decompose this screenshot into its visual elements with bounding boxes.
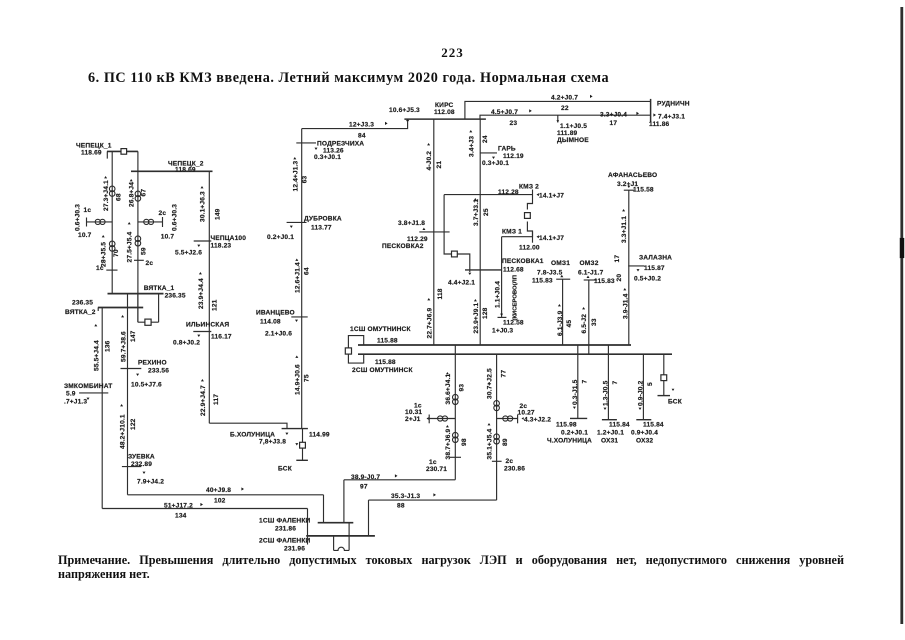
- tick 1c on v1: [96, 265, 118, 272]
- svg-text:10.31: 10.31: [405, 409, 422, 416]
- svg-text:ИЛЬИНСКАЯ: ИЛЬИНСКАЯ: [186, 322, 229, 329]
- svg-text:2c: 2c: [159, 210, 167, 217]
- svg-text:5.5+J2.6: 5.5+J2.6: [175, 250, 202, 257]
- svg-text:134: 134: [175, 513, 187, 520]
- svg-text:67: 67: [141, 189, 148, 197]
- labels line 136: [94, 324, 112, 371]
- svg-text:1+J0.3: 1+J0.3: [492, 328, 513, 335]
- svg-text:26.8+J4: 26.8+J4: [128, 182, 135, 207]
- labels РЕХИНО: [131, 360, 169, 389]
- labels line 17 (Дымное-Рудничн): [600, 112, 639, 128]
- labels line 20: [616, 274, 629, 319]
- svg-text:114.99: 114.99: [309, 432, 330, 439]
- svg-text:30.1+J6.3: 30.1+J6.3: [200, 191, 207, 222]
- wire v7 ЧЕПЕЦК_2 down to Б.ХОЛУНИЦА corner: [208, 171, 210, 423]
- node ЗАЛАЗНА tick: [628, 266, 644, 272]
- svg-text:2c: 2c: [146, 260, 154, 267]
- svg-text:ЗАЛАЗНА: ЗАЛАЗНА: [639, 255, 672, 262]
- svg-text:(КИСЕРОВО(ЛП: (КИСЕРОВО(ЛП: [512, 275, 518, 320]
- svg-text:115.88: 115.88: [375, 359, 396, 366]
- labels ПЕСКОВКА2: [382, 220, 428, 250]
- node ЗУЕВКА tick: [122, 467, 146, 474]
- svg-text:0.2+J0.1: 0.2+J0.1: [267, 234, 294, 241]
- tick 2c 230.86: [492, 458, 525, 473]
- node КИРС bus: [404, 102, 486, 119]
- labels line 63: [292, 157, 308, 192]
- svg-text:40+J9.8: 40+J9.8: [206, 487, 231, 494]
- svg-text:0.3+J0.1: 0.3+J0.1: [314, 154, 341, 161]
- node ЗМКОМБИНАТ tick: [79, 393, 108, 400]
- node АФАНАСЬЕВО tick: [624, 186, 634, 191]
- transformer circles 98: [453, 432, 459, 442]
- node ИЛЬИНСКАЯ tick: [193, 332, 211, 338]
- svg-text:ОХ31: ОХ31: [601, 438, 618, 445]
- svg-text:22: 22: [561, 105, 569, 112]
- branch Ч.ХОЛУНИЦА: [570, 345, 587, 418]
- node ПОДРЕЗЧИХА tick: [296, 143, 317, 150]
- svg-text:88: 88: [397, 503, 405, 510]
- labels КМЗ_2: [498, 184, 564, 200]
- svg-text:55.5+J4.4: 55.5+J4.4: [94, 340, 101, 371]
- node 1СШ ФАЛЕНКИ bus: [259, 518, 353, 533]
- svg-text:7.8-J3.5: 7.8-J3.5: [537, 270, 563, 277]
- svg-text:6.1-J3.9: 6.1-J3.9: [557, 310, 564, 336]
- svg-text:14.1+J7: 14.1+J7: [539, 235, 564, 242]
- label БСК: [278, 466, 293, 473]
- svg-text:1c: 1c: [96, 265, 104, 272]
- svg-text:1.1+J0.5: 1.1+J0.5: [560, 123, 587, 130]
- svg-text:10.5+J7.6: 10.5+J7.6: [131, 382, 162, 389]
- svg-text:147: 147: [130, 330, 137, 342]
- svg-text:114.08: 114.08: [260, 319, 281, 326]
- svg-text:70: 70: [113, 249, 120, 257]
- branch 2c 10kV: [497, 415, 518, 424]
- svg-text:БСК: БСК: [278, 466, 293, 473]
- svg-text:7: 7: [612, 381, 619, 385]
- svg-text:24: 24: [482, 135, 489, 143]
- labels line 88: [391, 493, 436, 510]
- label 4.4+J2.1: [448, 280, 475, 287]
- svg-text:КМЗ 2: КМЗ 2: [519, 184, 539, 191]
- svg-text:122: 122: [130, 418, 137, 430]
- svg-text:115.83: 115.83: [594, 278, 615, 285]
- labels line 118: [426, 288, 443, 338]
- svg-text:93: 93: [458, 384, 465, 392]
- label line 51+J17.2 134: [164, 503, 203, 520]
- node ДЫМНОЕ stub: [556, 115, 559, 122]
- labels line 17 Afan: [614, 209, 628, 263]
- svg-text:12.4+J1.3: 12.4+J1.3: [292, 160, 299, 191]
- wire line 22 Кирс-Рудничн: [465, 101, 651, 119]
- svg-text:22.7+J6.9: 22.7+J6.9: [426, 307, 433, 338]
- node ДУБРОВКА tick: [287, 222, 307, 228]
- svg-text:ЧЕПЦА100: ЧЕПЦА100: [211, 235, 247, 242]
- labels ИВАНЦЕВО: [256, 310, 295, 338]
- labels line 93: [445, 372, 465, 405]
- svg-text:112.00: 112.00: [519, 245, 540, 252]
- svg-text:ОМЗ2: ОМЗ2: [580, 260, 599, 267]
- svg-text:ВЯТКА_2: ВЯТКА_2: [65, 309, 96, 316]
- svg-text:236.35: 236.35: [165, 293, 186, 300]
- labels КИСЕРОВО: [492, 275, 524, 334]
- svg-text:118.69: 118.69: [175, 167, 196, 174]
- svg-text:30.7+J2.5: 30.7+J2.5: [487, 368, 494, 399]
- node ПЕСКОВКА2 tick: [419, 228, 449, 232]
- svg-text:48.2+J10.1: 48.2+J10.1: [119, 414, 126, 449]
- svg-text:36.6+J4.1: 36.6+J4.1: [445, 373, 452, 404]
- svg-text:ДЫМНОЕ: ДЫМНОЕ: [557, 137, 589, 144]
- labels ОМЗ2: [578, 260, 615, 285]
- svg-text:17: 17: [614, 255, 621, 263]
- labels line 75: [294, 356, 310, 396]
- wire КМЗ_2 line: [444, 190, 532, 201]
- svg-text:3.9-J1.4: 3.9-J1.4: [623, 293, 630, 319]
- svg-text:45: 45: [566, 320, 573, 328]
- svg-text:Б.ХОЛУНИЦА: Б.ХОЛУНИЦА: [230, 432, 275, 439]
- wire КМЗ_1 line: [502, 232, 533, 243]
- svg-text:ПЕСКОВКА1: ПЕСКОВКА1: [502, 258, 544, 265]
- labels line 45: [557, 304, 573, 336]
- branch 1c 10kV: [429, 415, 455, 424]
- labels line 24: [468, 130, 489, 157]
- breaker square ОМУТНИНСК tie: [345, 348, 351, 354]
- svg-text:231.96: 231.96: [284, 546, 305, 553]
- svg-text:17: 17: [610, 120, 618, 127]
- labels КМЗ_1: [502, 229, 564, 252]
- wire v8 from line-84 corner down to Б.ХОЛУНИЦА: [301, 129, 303, 429]
- svg-text:232.89: 232.89: [131, 461, 152, 468]
- labels ОХ31 line 7: [603, 380, 620, 410]
- labels ИЛЬИНСКАЯ: [173, 322, 232, 347]
- svg-text:Ч.ХОЛУНИЦА: Ч.ХОЛУНИЦА: [547, 438, 592, 445]
- svg-text:КМЗ 1: КМЗ 1: [502, 229, 522, 236]
- node ЧЕПЕЦК_1 bus: [76, 143, 138, 157]
- svg-text:27.5+J5.4: 27.5+J5.4: [126, 231, 133, 262]
- wire v-21 Кирс down to Омутнинск 1СШ: [433, 119, 435, 345]
- node ВЯТКА_2 bus: [65, 300, 143, 317]
- labels ЗАЛАЗНА: [634, 255, 672, 283]
- wire КМЗ tie with breaker: [527, 201, 532, 237]
- node ЧЕПЕЦК_2 bus: [131, 160, 213, 173]
- svg-text:ГАРЬ: ГАРЬ: [498, 146, 516, 153]
- svg-text:ЗУЕВКА: ЗУЕВКА: [128, 454, 155, 461]
- labels ГАРЬ: [482, 146, 524, 168]
- node ОМЗ2 tick: [584, 276, 597, 355]
- svg-text:116.17: 116.17: [211, 334, 232, 341]
- labels РУДНИЧН: [649, 101, 690, 129]
- wire Афанасьево-Залазна-Омутнинск: [628, 190, 630, 345]
- svg-text:51+J17.2: 51+J17.2: [164, 503, 193, 510]
- svg-text:1.1+J0.4: 1.1+J0.4: [495, 281, 502, 308]
- breaker square КМЗ tie: [525, 213, 531, 219]
- node Б.ХОЛУНИЦА bus tick: [282, 429, 308, 435]
- svg-text:ПЕСКОВКА2: ПЕСКОВКА2: [382, 243, 424, 250]
- labels ДЫМНОЕ: [557, 123, 589, 144]
- transformer column 2c (right): [496, 354, 498, 500]
- svg-text:АФАНАСЬЕВО: АФАНАСЬЕВО: [608, 172, 657, 179]
- svg-text:12.6+J1.4: 12.6+J1.4: [294, 262, 301, 293]
- label line 67: [128, 179, 147, 207]
- svg-text:ОХ32: ОХ32: [636, 438, 653, 445]
- svg-text:112.29: 112.29: [407, 236, 428, 243]
- svg-text:98: 98: [461, 438, 468, 446]
- svg-text:236.35: 236.35: [72, 300, 93, 307]
- svg-text:59.7+J8.6: 59.7+J8.6: [120, 331, 127, 362]
- svg-text:35.3-J1.3: 35.3-J1.3: [391, 493, 420, 500]
- svg-text:63: 63: [302, 175, 309, 183]
- svg-text:2+J1: 2+J1: [405, 416, 421, 423]
- svg-text:10.7: 10.7: [161, 234, 175, 241]
- svg-text:7,8+J3.8: 7,8+J3.8: [259, 439, 286, 446]
- branch ОХ31: [602, 345, 617, 420]
- svg-text:2c: 2c: [506, 458, 514, 465]
- transformer T59 circles on v3: [135, 236, 141, 246]
- labels line 98: [445, 425, 468, 460]
- labels 1c 10.31 2+J1: [405, 403, 429, 424]
- svg-text:25: 25: [483, 208, 490, 216]
- svg-text:7.4+J3.1: 7.4+J3.1: [658, 114, 685, 121]
- labels line 64: [294, 259, 310, 294]
- svg-text:РЕХИНО: РЕХИНО: [138, 360, 167, 367]
- svg-text:35.1+J5.4: 35.1+J5.4: [487, 428, 494, 459]
- branch ОХ32: [636, 354, 651, 420]
- labels line 149: [200, 186, 222, 222]
- svg-text:112.08: 112.08: [434, 109, 455, 116]
- svg-text:0.9+J0.4: 0.9+J0.4: [631, 430, 658, 437]
- svg-text:115.58: 115.58: [633, 187, 654, 194]
- svg-text:4.5+J0.7: 4.5+J0.7: [491, 109, 518, 116]
- svg-text:112.19: 112.19: [503, 153, 524, 160]
- svg-text:ЗМКОМБИНАТ: ЗМКОМБИНАТ: [64, 383, 112, 390]
- svg-text:118: 118: [437, 288, 444, 299]
- wire v6 ВЯТКА_1 to ФАЛЕНКИ 1СШ: [128, 294, 324, 523]
- svg-text:230.71: 230.71: [426, 466, 447, 473]
- svg-text:38.7+J6.9: 38.7+J6.9: [445, 428, 452, 459]
- wire v3 ЧЕПЕЦК down through ВЯТКА_1 to tie: [137, 151, 139, 322]
- node РЕХИНО tick: [121, 369, 142, 377]
- svg-text:111.89: 111.89: [557, 130, 578, 137]
- wire line 23 Кирс-Рудничн: [480, 115, 651, 119]
- svg-text:14.9+J0.6: 14.9+J0.6: [294, 364, 301, 395]
- svg-text:1.2+J0.1: 1.2+J0.1: [597, 430, 624, 437]
- labels ПОДРЕЗЧИХА: [314, 141, 364, 161]
- svg-text:РУДНИЧН: РУДНИЧН: [657, 101, 690, 108]
- svg-text:118.23: 118.23: [211, 243, 232, 250]
- transformer column 1c (left): [454, 345, 456, 480]
- labels line 147: [120, 315, 137, 362]
- svg-text:4-J0.2: 4-J0.2: [426, 151, 433, 171]
- svg-text:115.83: 115.83: [532, 278, 553, 285]
- svg-text:10.7: 10.7: [78, 232, 92, 239]
- labels ОХ32 line 5: [638, 380, 655, 410]
- svg-text:1c: 1c: [429, 459, 437, 466]
- breaker square on ЧЕПЕЦК_1 bus: [121, 149, 127, 155]
- labels line 77: [487, 368, 508, 399]
- labels line 21: [426, 143, 443, 171]
- node ПЕСКОВКА1 bus: [465, 258, 544, 274]
- svg-text:7: 7: [582, 380, 589, 384]
- svg-text:0.6+J0.3: 0.6+J0.3: [172, 204, 179, 231]
- breaker square БСК: [300, 442, 306, 448]
- svg-text:149: 149: [214, 208, 221, 220]
- labels ОМЗ1: [532, 260, 570, 285]
- breaker square ВЯТКА tie: [145, 319, 151, 325]
- branch БСК at 2СШ: [658, 354, 671, 395]
- node 2СШ ОМУТНИНСК bus: [352, 354, 672, 374]
- svg-text:28+J5.5: 28+J5.5: [100, 242, 107, 267]
- svg-text:БСК: БСК: [668, 399, 683, 406]
- transformer T67 circles on v3: [135, 191, 141, 201]
- svg-text:ПОДРЕЗЧИХА: ПОДРЕЗЧИХА: [317, 141, 364, 148]
- svg-text:2СШ ФАЛЕНКИ: 2СШ ФАЛЕНКИ: [259, 538, 311, 545]
- labels ОХ32: [631, 422, 664, 445]
- svg-text:23.9+J9.1: 23.9+J9.1: [473, 302, 480, 333]
- branch 1c load at ЧЕПЕЦК (10.7): [87, 218, 113, 227]
- transformer circles 89: [494, 434, 500, 444]
- svg-text:0.9-J0.2: 0.9-J0.2: [638, 380, 645, 406]
- labels line 84: [349, 107, 420, 140]
- svg-text:68: 68: [116, 193, 123, 201]
- svg-text:6.1-J1.7: 6.1-J1.7: [578, 270, 604, 277]
- svg-text:23.9+J4.4: 23.9+J4.4: [198, 278, 205, 309]
- labels 2c 0.6+J0.3 10.7: [159, 204, 179, 241]
- svg-text:3.3+J0.4: 3.3+J0.4: [600, 112, 627, 119]
- wire КМЗ_2 left branch to Песковка1: [444, 195, 471, 275]
- labels ЗМКОМБИНАТ: [64, 383, 112, 406]
- svg-text:5: 5: [647, 382, 654, 386]
- svg-text:115.87: 115.87: [644, 265, 665, 272]
- svg-text:59: 59: [141, 247, 148, 255]
- svg-text:22.9+J4.7: 22.9+J4.7: [200, 385, 207, 416]
- svg-text:.7+J1.3: .7+J1.3: [64, 399, 87, 406]
- node РУДНИЧН terminal: [651, 99, 656, 122]
- labels ДУБРОВКА: [267, 216, 342, 241]
- tick 2c on v3: [134, 260, 153, 267]
- labels line 122: [119, 404, 136, 449]
- svg-text:ВЯТКА_1: ВЯТКА_1: [144, 285, 175, 292]
- svg-text:ДУБРОВКА: ДУБРОВКА: [304, 216, 342, 223]
- svg-text:1.3-J0.5: 1.3-J0.5: [603, 380, 610, 406]
- svg-text:1СШ ОМУТНИНСК: 1СШ ОМУТНИНСК: [350, 326, 411, 333]
- svg-text:1СШ ФАЛЕНКИ: 1СШ ФАЛЕНКИ: [259, 518, 311, 525]
- transformer circles 2c branch: [144, 219, 154, 224]
- svg-text:113.77: 113.77: [311, 225, 332, 232]
- tick at ЧЕПЕЦК_1 bus left end: [106, 151, 108, 158]
- svg-text:115.84: 115.84: [643, 422, 664, 429]
- svg-text:0.3-J1.5: 0.3-J1.5: [572, 379, 579, 405]
- node ГАРЬ tick: [480, 153, 497, 159]
- labels line 128: [473, 299, 489, 334]
- svg-text:6.5-J2: 6.5-J2: [581, 314, 588, 334]
- svg-text:230.86: 230.86: [504, 466, 525, 473]
- branch КИСЕРОВО(ЛП) feeder: [498, 270, 507, 318]
- svg-text:4.2+J0.7: 4.2+J0.7: [551, 95, 578, 102]
- labels line 121: [198, 272, 219, 311]
- breaker square БСК-2СШ: [661, 375, 667, 381]
- svg-text:2СШ ОМУТНИНСК: 2СШ ОМУТНИНСК: [352, 367, 413, 374]
- svg-text:102: 102: [214, 498, 226, 505]
- svg-text:10.6+J5.3: 10.6+J5.3: [389, 107, 420, 114]
- svg-text:ОМЗ1: ОМЗ1: [551, 260, 570, 267]
- svg-text:0.6+J0.3: 0.6+J0.3: [75, 204, 82, 231]
- svg-text:33: 33: [591, 318, 598, 326]
- svg-text:75: 75: [304, 374, 311, 382]
- wire v7-bottom corner to Б.ХОЛУНИЦА bus: [209, 423, 287, 428]
- node 2СШ ФАЛЕНКИ bus: [259, 536, 375, 553]
- tick 1c 230.71: [426, 457, 461, 473]
- node ОМЗ1 tick: [556, 275, 570, 345]
- labels БСК: [668, 389, 683, 406]
- svg-text:21: 21: [436, 161, 443, 169]
- bus tie ВЯТКА with breaker: [138, 294, 159, 323]
- labels 2c 10.27 4.3+J2.2: [518, 403, 552, 424]
- svg-text:115.88: 115.88: [377, 338, 398, 345]
- svg-text:ЧЕПЕЦК_1: ЧЕПЕЦК_1: [76, 143, 112, 150]
- svg-text:4.3+J2.2: 4.3+J2.2: [524, 417, 551, 424]
- labels line 22: [551, 95, 593, 113]
- label line 40+J9.8 102: [206, 487, 244, 505]
- svg-text:2.1+J0.6: 2.1+J0.6: [265, 331, 292, 338]
- svg-text:0.8+J0.2: 0.8+J0.2: [173, 340, 200, 347]
- svg-text:121: 121: [212, 299, 219, 311]
- wire v5 ВЯТКА_2 to ФАЛЕНКИ 2СШ: [102, 308, 307, 536]
- svg-text:3.8+J1.8: 3.8+J1.8: [398, 220, 425, 227]
- wire line 88 to Фаленки 2СШ: [369, 500, 497, 536]
- svg-text:97: 97: [360, 484, 368, 491]
- svg-text:115.98: 115.98: [556, 422, 577, 429]
- svg-text:12+J3.3: 12+J3.3: [349, 122, 374, 129]
- labels line 25: [473, 198, 490, 226]
- labels Ч.ХОЛУНИЦА: [547, 422, 592, 445]
- svg-text:111.86: 111.86: [649, 121, 670, 128]
- wire Песковка1 up to КМЗ_1: [501, 237, 503, 270]
- svg-text:3.4+J3: 3.4+J3: [468, 136, 475, 157]
- labels line 97: [351, 474, 398, 491]
- node ЧЕПЦА100 tick: [194, 241, 212, 247]
- node 1СШ ОМУТНИНСК bus: [350, 326, 631, 345]
- svg-text:112.58: 112.58: [503, 320, 524, 327]
- transformer T70 circles on v1: [109, 241, 115, 251]
- svg-text:136: 136: [104, 340, 111, 352]
- svg-text:0.5+J0.2: 0.5+J0.2: [634, 276, 661, 283]
- svg-text:3.7+J3.1: 3.7+J3.1: [473, 199, 480, 226]
- svg-text:38.9-J0.7: 38.9-J0.7: [351, 474, 380, 481]
- wire line 84 (Подрезчиха-Кирс): [302, 119, 408, 129]
- transformer circles 1c branch: [95, 219, 105, 224]
- svg-text:115.84: 115.84: [609, 422, 630, 429]
- wire v1 ЧЕПЕЦК_1 to ВЯТКА_1: [111, 151, 113, 293]
- label line 59: [126, 222, 147, 263]
- svg-text:112.68: 112.68: [503, 267, 524, 274]
- svg-text:4.4+J2.1: 4.4+J2.1: [448, 280, 475, 287]
- svg-text:89: 89: [502, 438, 509, 446]
- label line 68: [103, 176, 123, 211]
- svg-text:1c: 1c: [84, 207, 92, 214]
- scan edge line right: [900, 7, 904, 624]
- bus tie ФАЛЕНКИ: [308, 522, 350, 550]
- svg-text:233.56: 233.56: [148, 368, 169, 375]
- labels АФАНАСЬЕВО: [608, 172, 657, 194]
- svg-text:10.27: 10.27: [518, 410, 535, 417]
- svg-text:0.3+J0.1: 0.3+J0.1: [482, 160, 509, 167]
- svg-text:0.2+J0.1: 0.2+J0.1: [561, 430, 588, 437]
- svg-text:27.3+J4.1: 27.3+J4.1: [103, 180, 110, 211]
- svg-text:3.3+J1.1: 3.3+J1.1: [621, 216, 628, 243]
- transformer T68 circles on v1: [109, 186, 115, 196]
- labels ОХ31: [597, 422, 630, 445]
- БСК branch at Б.ХОЛУНИЦА: [296, 429, 308, 461]
- label line 70: [100, 235, 120, 267]
